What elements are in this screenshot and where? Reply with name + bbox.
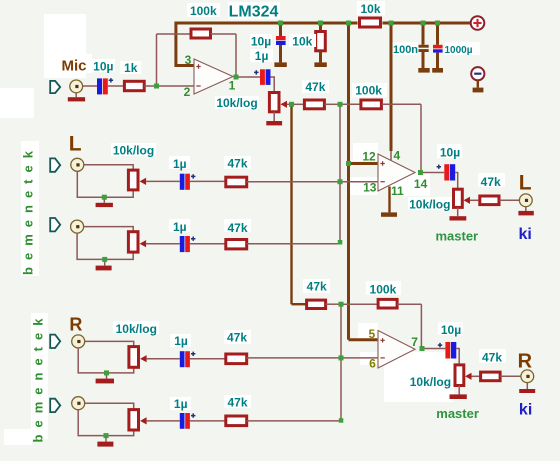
value label 10k/log (R1) bbox=[113, 321, 159, 336]
wire: R9a to L mixer corner bbox=[247, 242, 341, 244]
wire: L mixer node vertical bbox=[339, 104, 341, 242]
wire: R14 to R mixer corner bbox=[247, 419, 342, 422]
value label 47k (L1) bbox=[224, 156, 251, 170]
value label 10u (above 1u) bbox=[250, 49, 273, 63]
node: L mixer node at pin13 row bbox=[338, 179, 343, 184]
ground L2 bbox=[96, 266, 112, 271]
ground below J5 bbox=[519, 389, 535, 393]
wire: R6 to ground bbox=[319, 51, 322, 62]
value label 10u (R) bbox=[438, 322, 463, 337]
node: R mixer corner at R2 row bbox=[339, 418, 344, 423]
potentiometer P3 10k/log L1 bbox=[128, 170, 146, 190]
svg-text:47k: 47k bbox=[227, 331, 247, 345]
wire: junction to ground bbox=[106, 373, 108, 379]
wire: J1 to ground bbox=[75, 93, 77, 97]
value label 10u bbox=[250, 34, 272, 48]
svg-text:1000µ: 1000µ bbox=[444, 45, 472, 56]
svg-text:L: L bbox=[69, 133, 82, 156]
value label 47k bbox=[478, 173, 505, 189]
value label 1u (R2) bbox=[170, 397, 191, 411]
capacitor C4 10u output L bbox=[437, 164, 456, 180]
value label 47k (L2) bbox=[224, 219, 251, 235]
wire: J3 ground path bbox=[77, 233, 133, 259]
wire: C1 to R1 bbox=[108, 85, 124, 87]
wire: V- to ground bbox=[477, 80, 479, 87]
ground below C2 bbox=[274, 62, 286, 67]
connector J7 R2 jack bbox=[72, 397, 85, 410]
wire: J2 to P3 top bbox=[84, 165, 133, 170]
value label 10k/log bbox=[215, 96, 259, 110]
svg-text:1µ: 1µ bbox=[173, 157, 187, 171]
node: bias junction above 10k divider resistor bbox=[318, 21, 323, 26]
op-amp U1B triangle bbox=[378, 154, 415, 191]
svg-text:47k: 47k bbox=[227, 396, 247, 410]
wire: R11 right to feedback drop bbox=[397, 303, 421, 305]
wire: C8 to ground bbox=[422, 52, 425, 68]
capacitor C7 10u output R bbox=[438, 342, 457, 359]
svg-text:3: 3 bbox=[185, 53, 192, 67]
svg-text:100k: 100k bbox=[190, 4, 217, 18]
ground below J1 bbox=[68, 97, 85, 101]
op-amp U1A minus sign bbox=[196, 85, 200, 87]
wire: junction to ground bbox=[103, 197, 105, 203]
svg-text:10k/log: 10k/log bbox=[409, 197, 450, 211]
connector J4 output L jack bbox=[519, 194, 532, 207]
ground below V- terminal bbox=[473, 88, 484, 93]
wire: junction to ground bbox=[104, 259, 106, 265]
svg-text:10µ: 10µ bbox=[441, 323, 461, 337]
wire: R mixer node vertical bbox=[340, 304, 342, 420]
wire: J6 to P6 top bbox=[85, 341, 134, 346]
input arrow mic bbox=[50, 81, 60, 93]
value label 47k (R2) bbox=[224, 395, 251, 410]
capacitor C10 1u R1 bbox=[180, 351, 196, 367]
resistor R9a 47k L2 bbox=[226, 240, 247, 249]
resistor R11 100k feedback U1C bbox=[378, 299, 397, 308]
capacitor C5 1u L1 bbox=[180, 174, 196, 190]
wire: L node to R4 100k bbox=[340, 103, 361, 105]
wire: C11 to R14 bbox=[190, 420, 226, 422]
op-amp U1C minus sign bbox=[380, 357, 384, 359]
value label 1u (L1) bbox=[169, 156, 190, 171]
wire: feedback top right segment bbox=[211, 33, 237, 35]
value label 47k (row2) bbox=[303, 279, 330, 294]
node: L mixer node top junction bbox=[338, 102, 343, 107]
value label 47k (R1) bbox=[224, 330, 251, 345]
wire: V+ stub to C8 100n bbox=[422, 23, 425, 45]
ground R1 bbox=[96, 379, 114, 384]
svg-text:14: 14 bbox=[414, 177, 428, 191]
wire: U1B output to C4 bbox=[423, 172, 444, 174]
wire: V+ stub to C9 1000u bbox=[436, 23, 439, 45]
terminal V- minus bbox=[471, 67, 484, 80]
svg-text:2: 2 bbox=[184, 85, 191, 99]
wire: C10 to R13 bbox=[190, 358, 226, 360]
potentiometer P2 10k/log master L bbox=[454, 189, 471, 207]
svg-text:bemenetek: bemenetek bbox=[21, 144, 36, 275]
wire: P4 wiper to C6 bbox=[146, 243, 180, 245]
svg-text:10k/log: 10k/log bbox=[116, 322, 157, 336]
svg-text:10k/log: 10k/log bbox=[410, 375, 451, 389]
wire: thick bias vertical to U1B pin12 and U1C pin5 bbox=[347, 23, 350, 164]
svg-text:LM324: LM324 bbox=[229, 4, 279, 21]
wire: J6 ground path bbox=[78, 348, 134, 373]
potentiometer P5 10k/log master R bbox=[455, 365, 472, 386]
node: R2 ground junction bbox=[104, 433, 109, 438]
wire: P2 bottom to ground bbox=[457, 207, 459, 216]
resistor R3 47k mic to L mixer bbox=[304, 100, 324, 109]
wire: bias rail left section with corner down to U1 pin3 bbox=[176, 23, 358, 66]
connector J5 output R jack bbox=[521, 370, 534, 383]
ground R2 bbox=[97, 442, 113, 447]
svg-text:10k: 10k bbox=[292, 35, 312, 49]
resistor R7 47k output L bbox=[480, 196, 499, 205]
wire: V+ thick vertical to U1B pin4 bbox=[390, 23, 393, 151]
node: bias junction to opamp + inputs bbox=[346, 21, 351, 26]
svg-text:1µ: 1µ bbox=[174, 334, 188, 348]
svg-text:Mic: Mic bbox=[61, 57, 86, 74]
wire: mic bus junction to R3 bbox=[292, 103, 305, 105]
svg-text:7: 7 bbox=[411, 335, 418, 349]
svg-text:L: L bbox=[519, 171, 532, 194]
svg-text:R: R bbox=[518, 351, 533, 373]
wire: C4 to P2 top bbox=[455, 173, 458, 189]
value label 10k/log (R master) bbox=[408, 375, 452, 389]
connector J2 L1 jack bbox=[71, 158, 84, 171]
wire: R7 to J4 bbox=[499, 199, 519, 201]
wire: P5 wiper to R12 bbox=[472, 375, 481, 377]
wire: C6 to R9a bbox=[190, 243, 226, 245]
svg-text:47k: 47k bbox=[305, 80, 325, 94]
op-amp U1A triangle bbox=[194, 59, 233, 94]
svg-text:100k: 100k bbox=[370, 282, 397, 296]
wire: J1 to C1 bbox=[83, 85, 97, 87]
wire: C9 to ground bbox=[436, 53, 439, 68]
ground below U1B pin11 bbox=[381, 212, 397, 216]
resistor R5 10k (rail divider top) bbox=[360, 18, 381, 27]
wire: mic bus vertical down bbox=[290, 106, 292, 304]
wire: P7 wiper to C11 bbox=[147, 420, 180, 422]
ground below P5 bbox=[450, 394, 467, 399]
svg-text:12: 12 bbox=[362, 150, 376, 164]
wire: feedback drop to U1C output bbox=[420, 304, 422, 346]
input arrow R1 bbox=[50, 335, 60, 348]
wire: feedback left vertical bbox=[156, 34, 158, 86]
value label 10k bbox=[357, 1, 385, 16]
svg-text:10µ: 10µ bbox=[251, 34, 271, 48]
svg-text:47k: 47k bbox=[482, 351, 502, 365]
wire: mic bus corner into R8 bbox=[292, 303, 307, 305]
value label 1k bbox=[120, 61, 141, 75]
ground below R6 bbox=[314, 62, 326, 67]
node: R1 ground junction bbox=[104, 370, 109, 375]
ground below C8 bbox=[418, 68, 429, 73]
node: bias tee to pin 12 bbox=[346, 161, 351, 166]
node: bias junction above 10u cap bbox=[278, 21, 283, 26]
svg-text:ki: ki bbox=[519, 401, 532, 418]
value label 10k/log bbox=[408, 197, 452, 211]
capacitor C3 1u output U1A bbox=[254, 69, 270, 85]
wire: bias vertical continues down bbox=[347, 164, 350, 340]
capacitor C9 1000u bbox=[433, 45, 443, 53]
svg-text:10k/log: 10k/log bbox=[216, 96, 257, 110]
op-amp U1A plus sign bbox=[196, 64, 200, 68]
node: U1B output junction bbox=[418, 170, 423, 175]
wire: R node to U1C pin6 bbox=[341, 357, 377, 359]
svg-text:11: 11 bbox=[391, 184, 404, 198]
svg-text:47k: 47k bbox=[307, 280, 327, 294]
wire: P1 bottom to ground bbox=[273, 112, 275, 121]
svg-text:10µ: 10µ bbox=[440, 145, 460, 159]
ground below P1 bbox=[266, 121, 282, 125]
node: L1 ground junction bbox=[102, 195, 107, 200]
resistor R4 100k feedback U1B bbox=[361, 100, 382, 109]
svg-text:47k: 47k bbox=[227, 221, 247, 235]
value label 100n bbox=[391, 42, 418, 56]
node: R mixer node at pin6 row bbox=[339, 355, 344, 360]
node: U1C output junction bbox=[420, 346, 425, 351]
svg-text:master: master bbox=[435, 228, 478, 243]
svg-text:1µ: 1µ bbox=[173, 220, 187, 234]
wire: junction to ground bbox=[105, 436, 107, 442]
value label 47k bbox=[302, 80, 329, 94]
wire: P2 wiper to R7 bbox=[470, 199, 480, 201]
value label 100k bbox=[187, 3, 220, 18]
value label 100k (row2) bbox=[366, 281, 401, 296]
svg-text:47k: 47k bbox=[227, 156, 247, 170]
wire: C2 to ground bbox=[279, 45, 282, 63]
svg-text:1k: 1k bbox=[124, 61, 138, 75]
wire: R1 to U1A pin2 bbox=[144, 85, 193, 87]
wire: L node to U1B pin13 bbox=[340, 181, 377, 183]
value label 1000u bbox=[444, 42, 480, 56]
potentiometer P1 10k/log mic level bbox=[269, 93, 287, 112]
wire: R node to R11 100k bbox=[341, 303, 379, 305]
value label 10k bbox=[289, 34, 316, 49]
resistor R13 47k R1 bbox=[226, 354, 247, 364]
wire: feedback top left segment bbox=[157, 33, 192, 35]
wire: pin4 thin tail bbox=[390, 151, 392, 161]
svg-text:10µ: 10µ bbox=[93, 60, 113, 74]
op-amp U1C triangle bbox=[378, 331, 415, 369]
wire: J7 to P7 top bbox=[85, 403, 134, 409]
value label 47k (R out) bbox=[479, 349, 506, 365]
op-amp U1C plus sign bbox=[380, 338, 384, 342]
wire: stub rail to R6 bbox=[319, 23, 322, 31]
input arrow L2 bbox=[50, 218, 60, 231]
wire: R12 to J5 bbox=[500, 375, 521, 377]
capacitor C6 1u L2 bbox=[180, 236, 196, 252]
value label 10u bbox=[437, 144, 462, 159]
node: L mixer corner at L2 row bbox=[338, 240, 343, 245]
value label 1u (R1) bbox=[170, 334, 191, 348]
node: R mixer node top junction bbox=[339, 302, 344, 307]
wire: R10 to R mixer node bbox=[326, 303, 342, 305]
svg-text:100k: 100k bbox=[355, 84, 382, 98]
capacitor C8 100n bbox=[419, 45, 429, 52]
wire: V+ rail right section bbox=[383, 22, 471, 25]
resistor R14 47k R2 bbox=[226, 416, 247, 426]
svg-text:bemenetek: bemenetek bbox=[30, 312, 45, 443]
wire: P6 wiper to C10 bbox=[147, 358, 180, 360]
connector J3 L2 jack bbox=[71, 220, 84, 233]
capacitor C1 10u mic input bbox=[97, 78, 113, 94]
connector J6 R1 jack bbox=[72, 335, 85, 348]
wire: J7 ground path bbox=[78, 410, 134, 436]
svg-text:10k: 10k bbox=[360, 2, 380, 16]
wire: U1B pin11 to ground bbox=[388, 187, 390, 213]
wire: stub rail to C2 bbox=[279, 23, 282, 37]
wire: P1 wiper to mic bus junction bbox=[287, 103, 292, 105]
node: V+ junction above 1000u bbox=[435, 21, 440, 26]
wire: J5 to ground bbox=[526, 383, 528, 389]
resistor R8a 47k L1 bbox=[226, 177, 247, 187]
wire: bias tee into pin12 bbox=[349, 162, 378, 165]
resistor R2 100k feedback U1A bbox=[191, 29, 211, 38]
input arrow L1 bbox=[50, 158, 60, 171]
wire: P5 bottom to ground bbox=[458, 386, 460, 395]
wire: C7 to P5 top bbox=[456, 349, 459, 365]
svg-text:ki: ki bbox=[519, 226, 532, 243]
value label 10k/log (L1) bbox=[111, 143, 156, 157]
resistor R1 1k bbox=[124, 81, 144, 90]
value label 1u (L2) bbox=[169, 219, 190, 234]
resistor R10 47k mic to R mixer bbox=[307, 300, 326, 308]
wire: P3 wiper to C5 bbox=[146, 180, 180, 182]
wire: bias corner into pin5 bbox=[349, 338, 378, 341]
svg-text:4: 4 bbox=[393, 149, 400, 163]
svg-text:master: master bbox=[436, 406, 479, 421]
svg-text:47k: 47k bbox=[481, 175, 501, 189]
wire: U1C output to C7 bbox=[425, 348, 446, 350]
resistor R12 47k output R bbox=[481, 372, 501, 381]
ground L1 bbox=[96, 203, 113, 207]
op-amp U1B plus sign bbox=[380, 161, 384, 165]
wire: R4 right to feedback drop bbox=[382, 103, 422, 105]
wire: U1A output to C3 bbox=[239, 76, 261, 78]
svg-text:1µ: 1µ bbox=[255, 49, 269, 63]
svg-text:1µ: 1µ bbox=[174, 397, 188, 411]
potentiometer P7 R2 bbox=[129, 410, 147, 430]
svg-text:13: 13 bbox=[363, 181, 377, 195]
wire: R3 to L mixer node bbox=[325, 103, 341, 105]
node: L2 ground junction bbox=[102, 257, 107, 262]
wire: J2 ground path bbox=[77, 171, 133, 197]
value label 10u (mic cap) bbox=[92, 59, 115, 74]
svg-text:6: 6 bbox=[369, 356, 376, 370]
node: V+ junction to pin4 bbox=[389, 21, 394, 26]
capacitor C11 1u R2 bbox=[180, 413, 196, 429]
wire: J4 to ground bbox=[525, 207, 527, 211]
svg-text:5: 5 bbox=[368, 327, 375, 341]
svg-text:R: R bbox=[69, 315, 82, 335]
ground below C9 bbox=[432, 68, 443, 73]
wire: R8a to L mixer node bbox=[247, 181, 341, 183]
potentiometer P4 L2 bbox=[128, 232, 146, 252]
node: V+ junction above 100n bbox=[421, 21, 426, 26]
capacitor C2 10u bias decoupling bbox=[276, 36, 286, 45]
svg-text:10k/log: 10k/log bbox=[113, 143, 154, 157]
wire: C5 to R8a bbox=[190, 180, 226, 182]
value label 100k bbox=[352, 83, 387, 98]
potentiometer P6 10k/log R1 bbox=[129, 347, 147, 368]
node: U1A output junction bbox=[234, 75, 239, 80]
wire: feedback right vertical to output bbox=[235, 34, 237, 77]
input arrow R2 bbox=[50, 399, 60, 412]
node: mic feedback junction bbox=[154, 84, 159, 89]
ground below J4 bbox=[518, 211, 533, 216]
wire: feedback drop to U1B output bbox=[420, 104, 422, 170]
ground below P2 bbox=[450, 216, 467, 220]
node: mic bus junction bbox=[289, 102, 294, 107]
terminal V+ plus bbox=[471, 16, 485, 30]
wire: J3 to P4 top bbox=[84, 227, 134, 232]
wire: R13 to R mixer node bbox=[247, 357, 342, 359]
connector J1 mic jack bbox=[70, 80, 83, 93]
op-amp U1B minus sign bbox=[380, 181, 384, 183]
wire: C3 to P1 top bbox=[271, 77, 275, 92]
svg-text:100n: 100n bbox=[393, 44, 418, 56]
label LM324 bbox=[228, 2, 280, 21]
resistor R6 10k (divider bottom, vertical) bbox=[316, 32, 326, 51]
svg-text:1: 1 bbox=[229, 79, 236, 93]
